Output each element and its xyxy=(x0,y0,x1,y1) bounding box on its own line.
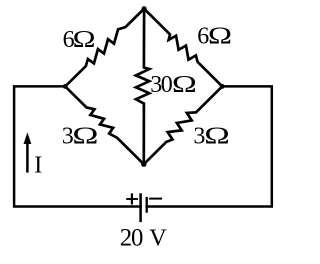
svg-text:30: 30 xyxy=(150,72,173,98)
svg-text:I: I xyxy=(34,152,42,178)
svg-text:20: 20 xyxy=(120,224,143,251)
svg-text:Ω: Ω xyxy=(73,25,96,52)
svg-text:Ω: Ω xyxy=(172,71,197,97)
svg-text:V: V xyxy=(149,224,167,251)
svg-text:Ω: Ω xyxy=(208,23,232,49)
svg-text:Ω: Ω xyxy=(204,123,230,150)
svg-text:Ω: Ω xyxy=(72,122,98,149)
